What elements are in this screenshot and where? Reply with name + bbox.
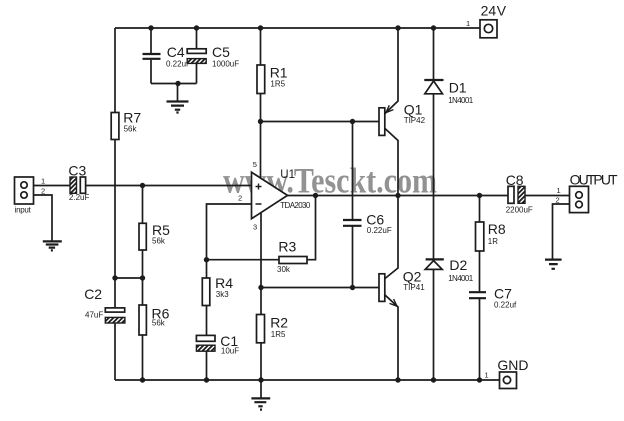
wire Q2 collector to output	[385, 196, 398, 279]
svg-text:10uF: 10uF	[221, 346, 239, 355]
capacitor C3	[68, 162, 89, 202]
junction dot +input R5	[140, 183, 145, 188]
wire C3 to op-amp +input	[86, 185, 253, 187]
junction dots output line	[313, 193, 482, 198]
svg-text:1R: 1R	[488, 237, 498, 246]
svg-text:1: 1	[557, 186, 561, 195]
svg-text:2200uF: 2200uF	[506, 206, 533, 215]
wire feedback node to R3	[207, 259, 280, 261]
svg-text:R1: R1	[270, 65, 288, 81]
svg-text:1: 1	[466, 19, 470, 28]
svg-text:R7: R7	[123, 109, 141, 125]
svg-text:C7: C7	[494, 285, 512, 301]
svg-text:input: input	[15, 206, 32, 215]
svg-text:1: 1	[485, 371, 489, 380]
svg-text:2: 2	[41, 187, 45, 196]
wire Q1 emitter to +24 rail	[385, 28, 398, 114]
resistor R6	[139, 305, 170, 335]
wire R1 to pin5	[260, 28, 262, 179]
wire R8 C7 zobel branch	[479, 196, 481, 381]
svg-text:2.2uF: 2.2uF	[69, 193, 90, 202]
capacitor C5	[187, 44, 239, 68]
capacitor C6	[343, 212, 392, 235]
svg-text:3: 3	[253, 223, 257, 232]
connector 24V	[466, 3, 507, 38]
op-amp U1 TDA2030	[252, 169, 311, 219]
wire input pin2 to ground	[34, 195, 53, 241]
junction dots node B	[112, 275, 145, 280]
wire C6 branch	[352, 122, 354, 288]
resistor R1	[257, 65, 288, 94]
transistor Q2	[379, 268, 425, 306]
wire C4 leads	[150, 28, 152, 84]
ground symbol under R2	[251, 380, 270, 410]
junction dot C4 C5 ground	[175, 81, 180, 86]
svg-text:1R5: 1R5	[271, 330, 286, 339]
capacitor C1	[196, 333, 239, 356]
svg-text:C8: C8	[506, 172, 524, 188]
wire inverting input to feedback node	[207, 204, 253, 260]
svg-text:1000uF: 1000uF	[212, 59, 239, 68]
svg-text:C3: C3	[68, 162, 86, 178]
wire input pin1 to C3	[34, 185, 71, 187]
svg-text:56k: 56k	[152, 319, 166, 328]
svg-text:GND: GND	[497, 357, 528, 373]
connector input	[15, 177, 46, 215]
wire bottom ground rail	[115, 379, 500, 381]
svg-text:C4: C4	[167, 44, 185, 60]
wire R5/R6 bias branch	[142, 186, 144, 381]
svg-text:0.22uF: 0.22uF	[367, 226, 392, 235]
junction dots Q2 base line	[258, 285, 355, 290]
ground symbol under C4 C5	[167, 102, 189, 113]
ground stem under C4 C5	[177, 84, 179, 102]
junction dots top rail	[148, 25, 436, 30]
wire C5 leads	[196, 28, 198, 84]
wire output line	[288, 195, 571, 197]
capacitor C8	[506, 172, 533, 215]
wire C4 C5 bottom link	[151, 83, 197, 85]
svg-text:R4: R4	[215, 275, 233, 291]
svg-text:R2: R2	[270, 314, 288, 330]
svg-text:D2: D2	[449, 257, 467, 273]
wire D1 D2 string	[433, 28, 435, 380]
resistor R7	[111, 109, 141, 139]
svg-text:2: 2	[556, 196, 560, 205]
wire left vertical rail upper (R7 branch)	[114, 28, 116, 311]
svg-text:OUTPUT: OUTPUT	[570, 172, 618, 188]
svg-text:0.22uf: 0.22uf	[494, 301, 517, 310]
wire top +24V rail	[115, 27, 480, 29]
wire pin3 to R2 to rail	[260, 212, 262, 381]
capacitor C7	[469, 285, 517, 309]
svg-text:C5: C5	[212, 44, 230, 60]
wire Q2 base line	[261, 287, 380, 289]
wire Q2 emitter to ground rail	[385, 295, 398, 380]
svg-text:U1: U1	[280, 169, 295, 181]
svg-text:1: 1	[41, 177, 45, 186]
svg-text:R3: R3	[278, 239, 296, 255]
junction dot feedback node	[204, 257, 209, 262]
svg-text:30k: 30k	[277, 265, 291, 274]
svg-text:TDA2030: TDA2030	[280, 201, 311, 210]
svg-text:1N4001: 1N4001	[448, 96, 474, 105]
resistor R4	[202, 275, 233, 305]
ground symbol under output pin2	[545, 260, 562, 269]
svg-text:56k: 56k	[124, 125, 138, 134]
wire Q1 collector to output	[385, 129, 398, 196]
resistor R3	[277, 239, 307, 274]
diode D2	[425, 257, 474, 283]
svg-text:C2: C2	[84, 286, 102, 302]
wire R4 C1 branch	[206, 260, 208, 380]
svg-text:0.22uf: 0.22uf	[166, 59, 189, 68]
wire left vertical rail lower (below C2)	[114, 318, 116, 381]
svg-text:47uF: 47uF	[85, 310, 103, 319]
resistor R8	[476, 221, 506, 251]
wire Q1 base line	[261, 121, 380, 123]
capacitor C4	[143, 44, 190, 68]
resistor R2	[257, 314, 289, 343]
svg-text:5: 5	[253, 160, 257, 169]
ground symbol under input	[43, 241, 62, 250]
svg-text:56k: 56k	[152, 236, 166, 245]
resistor R5	[139, 222, 170, 250]
junction dots Q1 base line	[258, 119, 355, 124]
svg-text:2: 2	[238, 194, 242, 203]
junction dots bottom rail	[140, 377, 482, 382]
capacitor C2	[84, 286, 125, 323]
svg-text:TIP41: TIP41	[403, 283, 425, 292]
svg-text:R8: R8	[488, 221, 506, 237]
svg-text:1N4001: 1N4001	[448, 274, 474, 283]
wire link node B to R5/R6 junction	[115, 277, 143, 279]
connector GND	[485, 357, 529, 389]
svg-text:1R5: 1R5	[270, 79, 285, 88]
svg-text:3k3: 3k3	[216, 290, 229, 299]
connector OUTPUT	[556, 172, 619, 213]
svg-text:24V: 24V	[481, 3, 507, 19]
svg-text:D1: D1	[449, 80, 467, 96]
svg-text:TIP42: TIP42	[404, 116, 426, 125]
wire R3 to output	[307, 196, 316, 260]
wire output pin2 to ground	[553, 204, 571, 259]
transistor Q1	[379, 102, 426, 136]
diode D1	[424, 80, 473, 105]
